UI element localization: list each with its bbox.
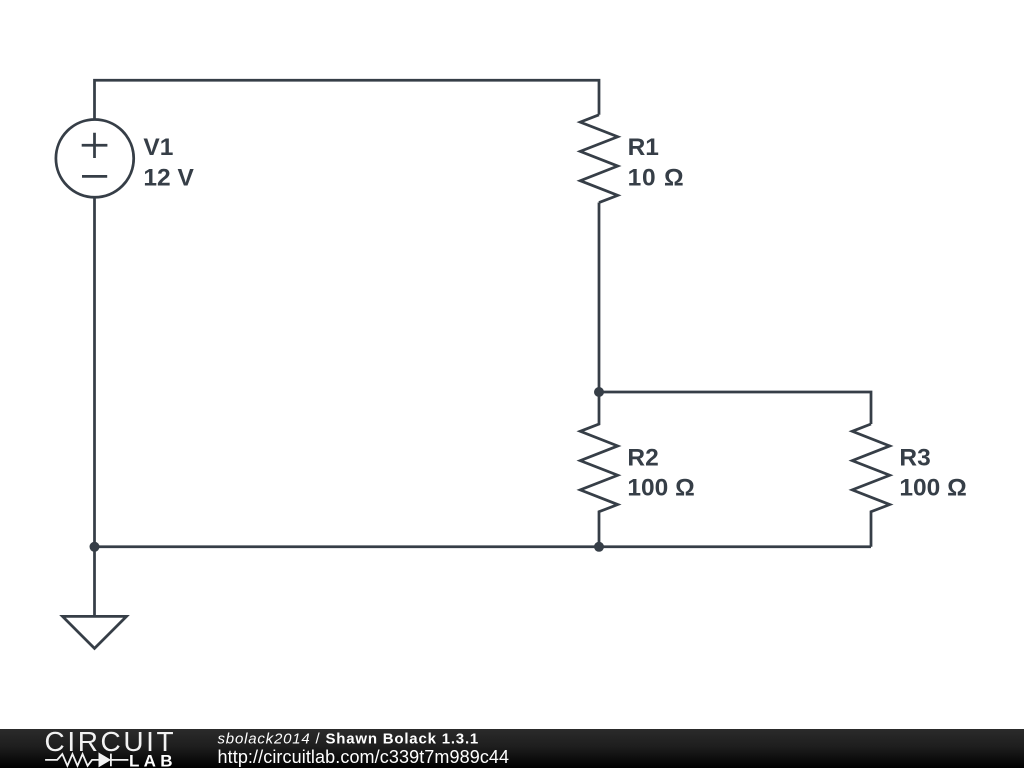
wire node to R3 top <box>599 392 871 424</box>
svg-text:10 Ω: 10 Ω <box>628 164 685 191</box>
wire left (V1 bottom to bottom rail) <box>93 197 96 547</box>
svg-text:R3: R3 <box>899 444 930 471</box>
label R2 value <box>627 444 694 501</box>
svg-text:100 Ω: 100 Ω <box>899 475 966 502</box>
svg-text:12 V: 12 V <box>143 164 194 191</box>
svg-text:R1: R1 <box>628 134 659 161</box>
node junction dot A <box>594 387 604 397</box>
wire R1 bottom to node <box>598 203 601 392</box>
wire to ground <box>93 547 96 616</box>
voltage source V1 <box>56 119 134 197</box>
ground <box>63 616 127 648</box>
resistor R3 <box>852 424 890 547</box>
svg-text:100 Ω: 100 Ω <box>627 475 694 502</box>
footer bar <box>0 729 1024 768</box>
wire bottom rail <box>95 545 872 548</box>
resistor R1 <box>580 115 618 203</box>
label V1 value <box>143 134 194 191</box>
svg-text:http://circuitlab.com/c339t7m9: http://circuitlab.com/c339t7m989c44 <box>218 747 510 767</box>
svg-text:sbolack2014 / Shawn Bolack 1.3: sbolack2014 / Shawn Bolack 1.3.1 <box>218 730 480 747</box>
logo resistor-diode squiggle <box>45 754 128 767</box>
node junction dot C (R2 bottom) <box>594 542 604 552</box>
label R1 value <box>628 134 685 191</box>
svg-text:V1: V1 <box>143 134 173 161</box>
svg-text:LAB: LAB <box>129 751 177 768</box>
label R3 value <box>899 444 966 501</box>
wire top (V1 top to R1 top) <box>95 80 600 120</box>
resistor R2 <box>580 392 618 547</box>
node junction dot B (left) <box>90 542 100 552</box>
svg-text:R2: R2 <box>627 444 658 471</box>
